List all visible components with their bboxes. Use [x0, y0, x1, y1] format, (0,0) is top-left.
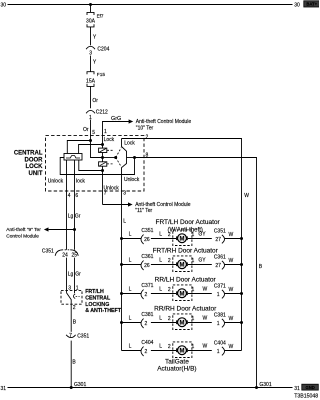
- svg-text:W: W: [229, 316, 234, 322]
- svg-text:FRT/RH Door Actuator: FRT/RH Door Actuator: [153, 248, 219, 255]
- label TailGate Actuator(H/B): [157, 359, 196, 373]
- wire connector to motor, labels L 2: [151, 343, 176, 350]
- connector C361 pin 27 (right): [214, 255, 226, 270]
- wire connector to motor, labels L 2: [151, 257, 176, 264]
- svg-text:M: M: [180, 236, 185, 242]
- svg-text:2: 2: [145, 349, 148, 355]
- svg-text:RR/LH Door Actuator: RR/LH Door Actuator: [155, 277, 217, 284]
- door actuator motor M row 3: [173, 285, 192, 301]
- wire C212 to central unit pin 5, label Or: [83, 120, 95, 141]
- svg-text:2: 2: [168, 287, 171, 293]
- node: power branch inside unit: [89, 139, 92, 142]
- wire connector to W bus, label W: [225, 287, 242, 294]
- connector C381 pin 2 (left): [141, 312, 154, 328]
- svg-text:31: 31: [294, 386, 300, 392]
- svg-text:LOCK: LOCK: [26, 164, 44, 170]
- wire pin 6 (Gr) down to C351: [74, 160, 76, 250]
- wire L bus to connector C381 pin 2: [122, 315, 142, 322]
- wire motor to connector C371 pin 1, labels 1 W: [188, 287, 212, 294]
- svg-text:W: W: [203, 316, 208, 322]
- svg-text:L: L: [159, 343, 162, 349]
- svg-text:W: W: [203, 287, 208, 293]
- node: W bus tap row 1: [240, 237, 243, 240]
- wire pin 8 to ground G301: [135, 158, 257, 388]
- BAT+ tag box: [304, 1, 320, 7]
- svg-text:Anti-theft Control Module: Anti-theft Control Module: [135, 202, 191, 208]
- svg-text:30: 30: [294, 2, 300, 8]
- svg-text:L: L: [129, 257, 132, 263]
- connector C371 pin 2 (left): [141, 283, 154, 299]
- label 30 left: [1, 2, 7, 8]
- svg-text:C381: C381: [214, 313, 226, 319]
- wire pin 2 to W bus: [122, 139, 242, 351]
- svg-text:L: L: [159, 315, 162, 321]
- connector C351 pin 7: [66, 333, 89, 339]
- ground node G301 left: [70, 382, 87, 389]
- wire bus30 to fuse Ef7: [90, 5, 92, 13]
- svg-text:2: 2: [146, 134, 149, 140]
- label FRT/LH CENTRAL LOCKING & ANTI-THEFT: [85, 289, 122, 314]
- svg-text:L: L: [129, 315, 132, 321]
- svg-text:C351: C351: [77, 333, 89, 339]
- label W: [244, 193, 249, 199]
- connector C404 pin 2 (left): [141, 340, 154, 356]
- relay coil unlock: [99, 162, 107, 166]
- switch mechanical linkage dashes: [107, 148, 121, 167]
- svg-text:Anti-theft "9" Ter: Anti-theft "9" Ter: [6, 227, 41, 233]
- key switch contacts: [67, 293, 80, 304]
- svg-text:CENTRAL: CENTRAL: [14, 150, 43, 156]
- svg-text:GY: GY: [198, 232, 206, 238]
- switch pivot feed wire: [103, 157, 116, 159]
- wire to ground G301, label B: [71, 341, 76, 388]
- FRT/LH central locking & anti-theft switch dashed box: [61, 290, 82, 304]
- svg-text:Lg: Lg: [68, 271, 74, 277]
- svg-text:GND: GND: [305, 385, 314, 390]
- node: L bus tap row 3: [120, 292, 123, 295]
- svg-text:L: L: [123, 218, 126, 224]
- svg-text:15A: 15A: [86, 78, 96, 84]
- svg-text:T3B15048: T3B15048: [294, 394, 318, 400]
- node: W bus tap row 2: [240, 263, 243, 266]
- svg-text:25: 25: [72, 252, 78, 258]
- svg-text:C404: C404: [141, 340, 153, 346]
- door lock motor box (driver door): [64, 154, 82, 161]
- node: W bus tap row 3: [240, 292, 243, 295]
- svg-text:26: 26: [144, 237, 150, 243]
- svg-text:1: 1: [217, 349, 220, 355]
- svg-text:C371: C371: [141, 283, 153, 289]
- connector C351 pins 24 25: [42, 249, 78, 259]
- wire coil lock to coil unlock: [102, 145, 104, 158]
- label CENTRAL DOOR LOCK UNIT: [14, 150, 43, 177]
- svg-text:Lock: Lock: [124, 141, 135, 147]
- svg-text:W: W: [244, 193, 249, 199]
- svg-text:3: 3: [123, 191, 126, 197]
- svg-text:C371: C371: [214, 284, 226, 290]
- svg-text:W: W: [229, 258, 234, 264]
- label Lock (switch): [124, 141, 135, 147]
- svg-text:& ANTI-THEFT: & ANTI-THEFT: [85, 308, 122, 314]
- svg-text:W: W: [229, 287, 234, 293]
- svg-text:27: 27: [215, 237, 221, 243]
- svg-text:2: 2: [168, 344, 171, 350]
- connector C361 pin 26 (left): [141, 254, 154, 270]
- labels Lg Gr: [68, 214, 81, 220]
- wire between coils and down to pin 7: [102, 158, 104, 205]
- connector C351 pin 26 (left): [141, 228, 154, 244]
- label anti-theft 9 Ter control module: [6, 227, 41, 239]
- svg-text:GrG: GrG: [111, 116, 121, 122]
- node: L bus tap row 4: [120, 321, 123, 324]
- svg-text:LOCKING: LOCKING: [85, 302, 109, 308]
- svg-text:7: 7: [69, 333, 72, 339]
- svg-text:4: 4: [68, 193, 71, 199]
- svg-text:1: 1: [104, 129, 107, 135]
- lock/unlock changeover switch: [122, 139, 127, 192]
- svg-text:M: M: [180, 320, 185, 326]
- svg-text:CENTRAL: CENTRAL: [85, 296, 111, 302]
- svg-text:FRT/LH: FRT/LH: [85, 289, 104, 295]
- pin number labels 4 6 7 3: [68, 191, 126, 199]
- svg-text:L: L: [129, 286, 132, 292]
- svg-text:Lock: Lock: [104, 137, 115, 143]
- label FRT/RH Door Actuator: [153, 248, 219, 255]
- central door lock unit dashed enclosure: [46, 136, 145, 191]
- svg-text:M: M: [180, 348, 185, 354]
- label L on unlock bus: [123, 218, 126, 224]
- wire power down and to coil chain: [91, 141, 103, 158]
- fuse F15 15A: [86, 72, 105, 87]
- wire L bus to connector C371 pin 2: [122, 286, 142, 293]
- svg-text:2: 2: [145, 292, 148, 298]
- door actuator motor M row 2: [173, 256, 192, 272]
- wire fuse Ef7 to connector C204, label Y: [91, 27, 97, 45]
- wire connector to motor, labels L 2: [151, 315, 176, 322]
- svg-text:W: W: [229, 344, 234, 350]
- svg-text:"11" Ter: "11" Ter: [135, 208, 152, 214]
- svg-text:F15: F15: [97, 72, 106, 78]
- label 30 right: [294, 2, 300, 8]
- label anti-theft control module 11 Ter: [135, 202, 191, 214]
- svg-text:L: L: [159, 257, 162, 263]
- wire connector to W bus, label W: [225, 232, 242, 239]
- svg-text:Gr: Gr: [75, 214, 81, 220]
- wire connector to motor, labels L 2: [151, 231, 176, 238]
- svg-text:1: 1: [217, 321, 220, 327]
- relay coil lock: [99, 148, 107, 152]
- svg-text:Control Module: Control Module: [6, 234, 39, 240]
- pin labels 3 1: [68, 286, 79, 292]
- svg-text:Unlock: Unlock: [124, 177, 140, 183]
- svg-text:1: 1: [192, 344, 195, 350]
- svg-text:L: L: [159, 286, 162, 292]
- svg-text:1: 1: [192, 316, 195, 322]
- label Lock (relay): [104, 137, 115, 143]
- wires C351 to door switch pins 3 1, labels Lg Gr: [67, 258, 82, 294]
- wire C204 to fuse F15, label Y: [91, 56, 97, 72]
- node: L bus tap row 2: [120, 263, 123, 266]
- connector C351 pin 27 (right): [214, 229, 226, 244]
- svg-text:7: 7: [104, 191, 107, 197]
- node: tap on Gr wire: [73, 228, 76, 231]
- svg-text:Ef7: Ef7: [97, 13, 104, 18]
- svg-text:"10" Ter: "10" Ter: [136, 126, 154, 132]
- svg-text:Actuator(H/B): Actuator(H/B): [157, 365, 196, 372]
- door actuator motor M row 1: [173, 230, 192, 246]
- wire pin 1 GrG to anti-theft control module 10 Ter: [103, 119, 134, 144]
- svg-text:Or: Or: [83, 127, 89, 133]
- wire motor to connector C361 pin 27, labels 1 GY: [188, 258, 212, 265]
- wire pin 7 to anti-theft 11 Ter: [103, 202, 133, 206]
- wire connector to W bus, label W: [225, 258, 242, 265]
- wire motor bottom-right pin to coil chain bottom: [79, 160, 103, 171]
- node: pin 8 junction: [133, 156, 136, 159]
- svg-text:Lg: Lg: [68, 214, 74, 220]
- svg-text:C361: C361: [141, 254, 153, 260]
- node: coil chain middle (power feed): [101, 156, 104, 159]
- svg-text:W: W: [229, 232, 234, 238]
- node: junction of fuse Ef7 drop on bus 30: [89, 3, 92, 6]
- node: L bus tap row 1: [120, 237, 123, 240]
- wire pin 4 (Lg) down to C351: [66, 160, 68, 250]
- svg-text:C212: C212: [96, 109, 108, 115]
- node: coil chain top: [101, 143, 104, 146]
- svg-text:24: 24: [62, 252, 68, 258]
- svg-text:L: L: [129, 343, 132, 349]
- wire F15 to connector C212, label Or: [91, 86, 99, 108]
- label RR/LH Door Actuator: [155, 277, 217, 284]
- svg-text:Gr: Gr: [75, 271, 81, 277]
- svg-text:L: L: [129, 231, 132, 237]
- svg-text:1: 1: [192, 287, 195, 293]
- wire motor to connector C381 pin 1, labels 1 W: [188, 316, 212, 323]
- label 31 right: [294, 386, 300, 392]
- svg-text:1: 1: [192, 232, 195, 238]
- svg-text:2: 2: [168, 316, 171, 322]
- svg-text:C351: C351: [42, 249, 54, 255]
- label T3B15048: [294, 394, 318, 400]
- svg-text:Or: Or: [92, 98, 98, 104]
- svg-text:G301: G301: [74, 382, 86, 388]
- label B: [259, 264, 263, 270]
- svg-text:27: 27: [215, 263, 221, 269]
- svg-text:Unlock: Unlock: [48, 178, 64, 184]
- labels Unlock lock Unlock for bottom pins: [48, 178, 119, 191]
- connector C212 pin 1: [86, 109, 108, 121]
- node: switch pivot: [114, 156, 117, 159]
- svg-text:G301: G301: [259, 382, 271, 388]
- wire connector to motor, labels L 2: [151, 286, 176, 293]
- svg-text:L: L: [159, 231, 162, 237]
- wire switch bar to pin 8 node: [127, 157, 135, 159]
- svg-text:Anti-theft Control Module: Anti-theft Control Module: [136, 119, 192, 125]
- svg-text:RR/RH Door Actuator: RR/RH Door Actuator: [154, 306, 217, 313]
- label RR/RH Door Actuator: [154, 306, 217, 313]
- wire motor to connector C404 pin 1, labels 1 W: [188, 344, 212, 351]
- svg-text:30A: 30A: [86, 18, 96, 24]
- wire connector to W bus, label W: [225, 344, 242, 351]
- label FRT/LH Door Actuator: [156, 219, 221, 233]
- svg-text:C351: C351: [214, 229, 226, 235]
- label Unlock (switch): [124, 177, 140, 183]
- wire to anti-theft 9 Ter: [44, 227, 75, 231]
- label 31 left: [1, 386, 7, 392]
- svg-text:2: 2: [145, 321, 148, 327]
- wire motor left pin loop to pin8 node: [60, 158, 134, 175]
- svg-text:31: 31: [1, 386, 7, 392]
- svg-text:1: 1: [192, 258, 195, 264]
- wire L bus to connector C404 pin 2: [122, 343, 142, 350]
- svg-text:C204: C204: [97, 47, 109, 53]
- svg-text:C404: C404: [214, 341, 226, 347]
- connector C404 pin 1 (right): [214, 341, 226, 356]
- bus 30 (battery feed): [8, 4, 293, 6]
- bus 31 (ground): [8, 387, 293, 389]
- svg-text:BAT+: BAT+: [306, 2, 317, 7]
- svg-text:30: 30: [1, 2, 7, 8]
- wire L bus to connector C351 pin 26: [122, 231, 142, 238]
- door actuator motor M row 4: [173, 314, 192, 330]
- wire L unlock bus: [121, 191, 123, 350]
- connector C204 pin 3: [86, 46, 109, 56]
- svg-text:C351: C351: [141, 228, 153, 234]
- wire power to door-lock motor top-left pin: [67, 141, 90, 154]
- wire connector to W bus, label W: [225, 316, 242, 323]
- svg-text:26: 26: [144, 263, 150, 269]
- ground node G301 right: [255, 382, 272, 389]
- node: W bus tap row 4: [240, 321, 243, 324]
- node: coil chain bottom: [101, 169, 104, 172]
- fuse Ef7 30A: [86, 12, 104, 27]
- svg-text:M: M: [180, 262, 185, 268]
- svg-text:DOOR: DOOR: [25, 157, 44, 163]
- svg-text:1: 1: [217, 292, 220, 298]
- svg-text:FRT/LH Door Actuator: FRT/LH Door Actuator: [156, 219, 221, 226]
- GND tag box: [302, 384, 319, 390]
- wire motor to connector C351 pin 27, labels 1 GY: [188, 232, 212, 239]
- connector C381 pin 1 (right): [214, 313, 226, 328]
- wire L bus to connector C361 pin 26: [122, 257, 142, 264]
- svg-text:C381: C381: [141, 312, 153, 318]
- svg-text:M: M: [180, 291, 185, 297]
- svg-text:W: W: [203, 344, 208, 350]
- svg-text:C361: C361: [214, 255, 226, 261]
- svg-text:2: 2: [168, 232, 171, 238]
- door actuator motor M row 5: [173, 342, 192, 358]
- pin number labels 2 8: [146, 134, 149, 158]
- svg-text:2: 2: [73, 305, 76, 311]
- label anti-theft control module 10 Ter: [136, 119, 192, 131]
- wire switch pin 2 down, label B: [71, 304, 77, 332]
- svg-text:6: 6: [75, 193, 78, 199]
- svg-text:2: 2: [168, 258, 171, 264]
- svg-text:lock: lock: [76, 178, 85, 184]
- wire motor top-right pin to coil chain top node: [79, 145, 103, 154]
- svg-text:UNIT: UNIT: [29, 171, 43, 177]
- svg-text:GY: GY: [198, 258, 206, 264]
- connector C371 pin 1 (right): [214, 284, 226, 299]
- label GrG and pin 1: [104, 116, 121, 135]
